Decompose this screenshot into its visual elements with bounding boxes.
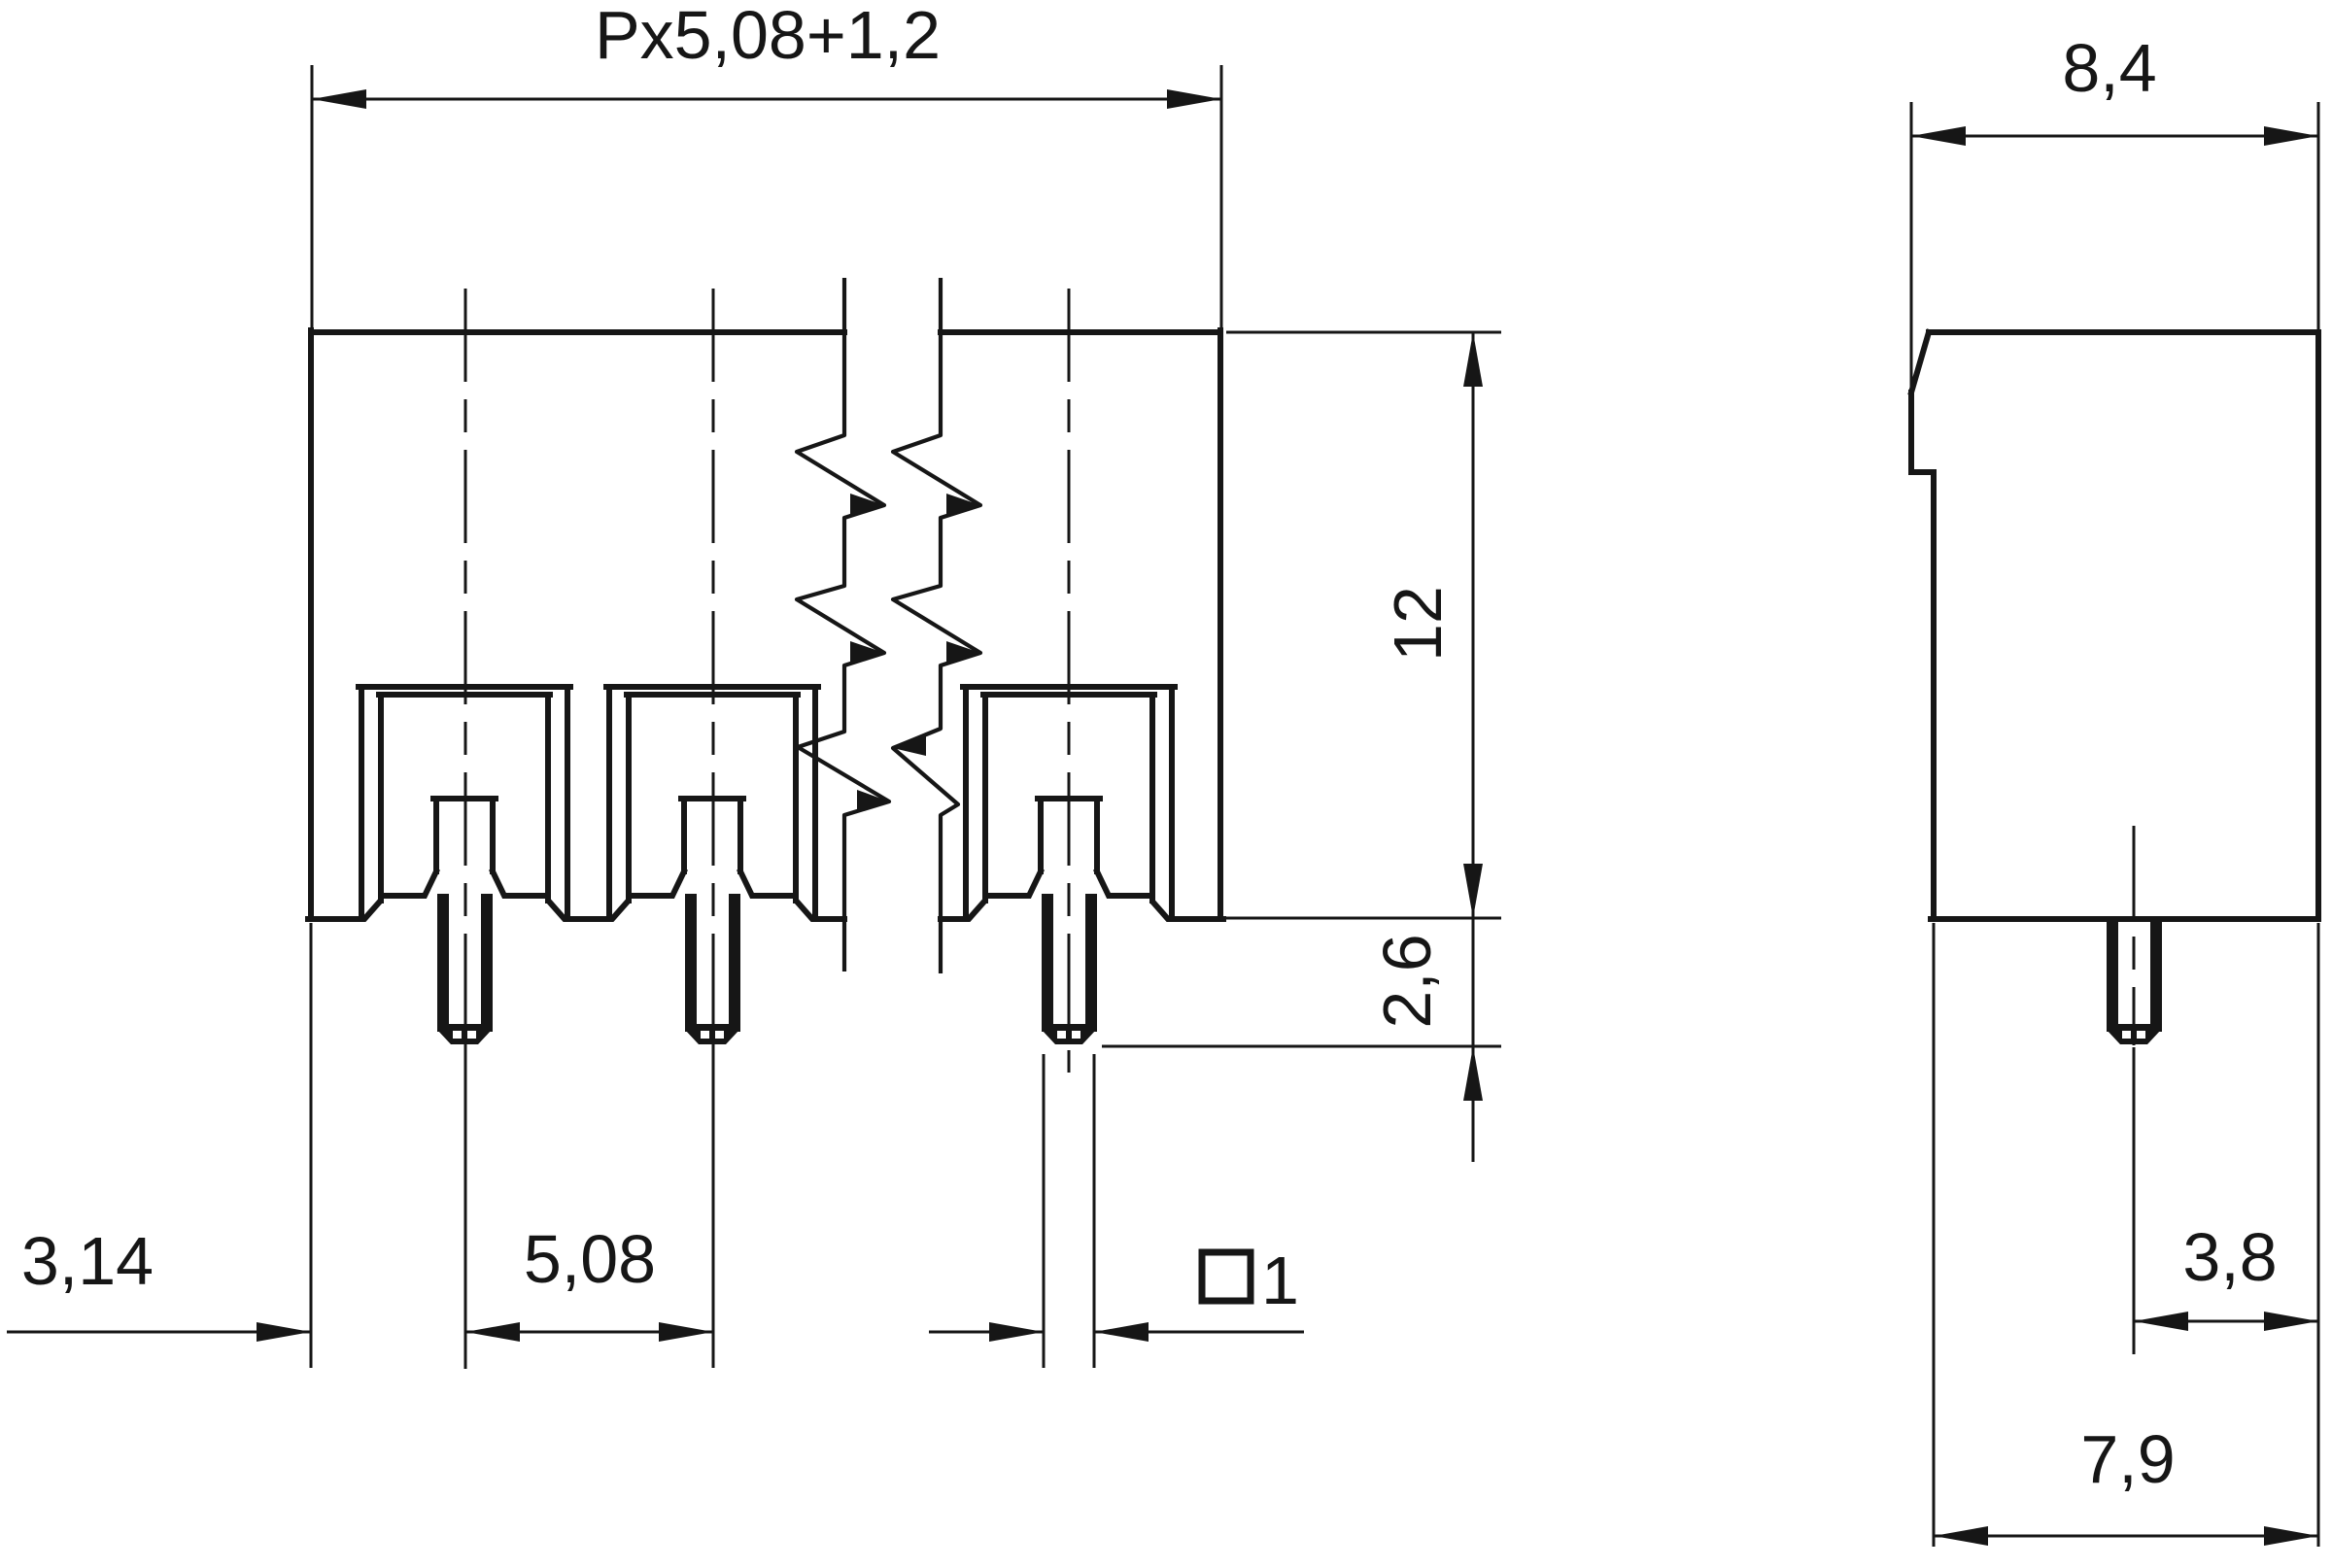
svg-text:7,9: 7,9 <box>2080 1421 2175 1497</box>
centerline pin 2 <box>712 289 715 1368</box>
dimension 8,4 <box>1911 102 2318 389</box>
body outline front view <box>308 330 1223 919</box>
pin P3 solder tail <box>1042 894 1096 1044</box>
socket chamber 3 <box>963 687 1175 917</box>
break line right <box>893 278 980 973</box>
svg-text:2,6: 2,6 <box>1369 934 1445 1028</box>
svg-text:Px5,08+1,2: Px5,08+1,2 <box>595 0 941 73</box>
dimension 3,8 <box>2134 1320 2318 1323</box>
dimension 5,08 <box>465 1331 713 1334</box>
dimension 7,9 <box>1934 923 2318 1547</box>
svg-text:8,4: 8,4 <box>2062 30 2156 106</box>
svg-text:5,08: 5,08 <box>524 1221 656 1297</box>
svg-text:3,8: 3,8 <box>2182 1219 2277 1295</box>
svg-text:3,14: 3,14 <box>21 1223 154 1299</box>
pin P1 solder tail <box>437 894 492 1044</box>
dimension square 1 (pin width) <box>929 1054 1304 1368</box>
centerline pin side view <box>2133 826 2136 1354</box>
pin side view <box>2107 919 2161 1044</box>
dimension 12 <box>1226 332 1501 918</box>
pin P2 head in chamber <box>681 799 743 871</box>
dimension Px5,08+1,2 <box>312 65 1221 330</box>
svg-text:12: 12 <box>1380 586 1456 662</box>
break line left <box>797 278 889 971</box>
dimension 2,6 <box>1102 918 1501 1162</box>
dimension 3,14 <box>7 923 311 1368</box>
svg-text:1: 1 <box>1261 1243 1299 1318</box>
socket chamber 1 <box>359 687 570 917</box>
centerline pin 3 <box>1068 289 1071 1073</box>
socket chamber 2 <box>606 687 818 917</box>
pin P1 head in chamber <box>433 799 496 871</box>
centerline pin 1 <box>464 289 467 1369</box>
body outline side view <box>1911 332 2318 919</box>
pin P3 head in chamber <box>1038 799 1100 871</box>
pin P2 solder tail <box>685 894 739 1044</box>
